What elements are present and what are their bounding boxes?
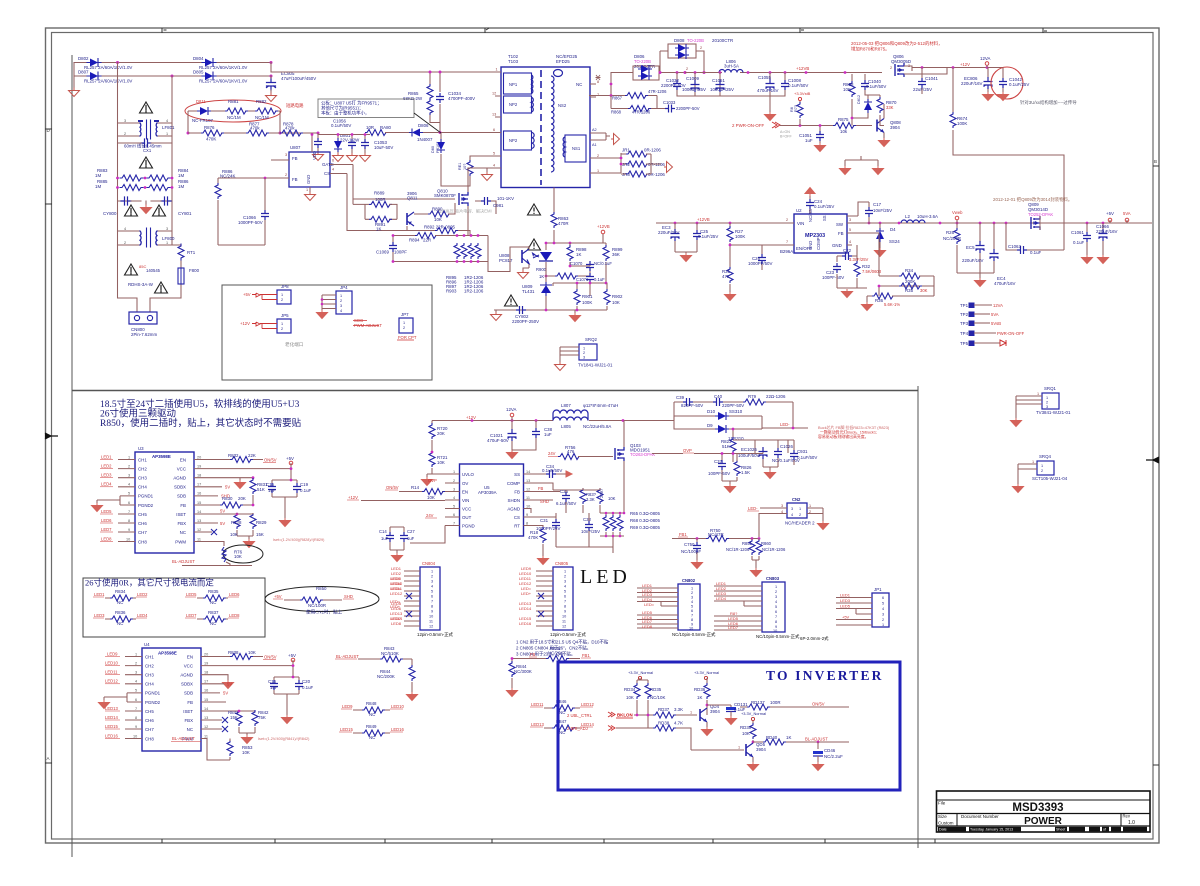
svg-text:220uF/25V: 220uF/25V: [658, 230, 680, 235]
svg-text:CH4: CH4: [138, 485, 147, 490]
svg-text:F800: F800: [189, 268, 200, 273]
svg-text:FB: FB: [180, 503, 186, 508]
junctions rail: [676, 71, 679, 74]
svg-text:2: 2: [281, 298, 283, 302]
svg-text:R14: R14: [411, 485, 420, 490]
svg-text:R894: R894: [409, 238, 420, 243]
svg-text:BL-ADJUST: BL-ADJUST: [172, 736, 195, 741]
resistor R674: [952, 68, 954, 113]
wire sense to opto loop: [488, 262, 510, 272]
svg-text:51K: 51K: [257, 487, 265, 492]
resistor R890: [428, 211, 451, 217]
svg-text:VDD: VDD: [312, 151, 317, 160]
svg-text:of: of: [1103, 828, 1106, 832]
svg-text:R868: R868: [611, 110, 622, 115]
capacitor C1066b: [218, 178, 265, 245]
svg-text:LED6: LED6: [391, 606, 402, 611]
svg-text:R79: R79: [748, 394, 757, 399]
svg-text:使用CN2时，贴上: 使用CN2时，贴上: [306, 609, 343, 616]
svg-text:2012-12-01 把Q809改为3014封装物料。: 2012-12-01 把Q809改为3014封装物料。: [993, 196, 1072, 203]
svg-text:6: 6: [882, 596, 884, 600]
svg-text:ISET: ISET: [176, 512, 186, 517]
svg-text:C1051: C1051: [712, 78, 725, 83]
svg-text:R69 0.3Ω-0805: R69 0.3Ω-0805: [630, 525, 660, 530]
svg-text:OVP: OVP: [683, 448, 692, 453]
svg-text:1: 1: [453, 470, 455, 474]
svg-text:10K: 10K: [608, 496, 616, 501]
svg-text:VCC: VCC: [177, 467, 186, 472]
connector CN800: [129, 312, 157, 324]
svg-text:12: 12: [526, 488, 530, 492]
svg-text:PWM: PWM: [175, 540, 186, 545]
resistor R902: [604, 289, 610, 305]
ground U807: [305, 192, 316, 201]
svg-text:1000uF/25V: 1000uF/25V: [710, 87, 734, 92]
svg-text:3: 3: [791, 507, 793, 511]
svg-text:33K: 33K: [886, 105, 894, 110]
svg-text:470uF/16V: 470uF/16V: [757, 88, 779, 93]
svg-text:SRQ2: SRQ2: [585, 337, 598, 342]
svg-text:5: 5: [691, 605, 693, 609]
svg-text:R890: R890: [432, 207, 443, 212]
snubber ellipse red: [185, 100, 281, 122]
svg-text:C750: C750: [684, 542, 695, 547]
resistor R867 secondary: [589, 84, 657, 109]
svg-text:LED11: LED11: [531, 702, 544, 707]
capacitor C1069: [393, 236, 415, 262]
svg-text:5: 5: [453, 505, 455, 509]
svg-text:1.5K: 1.5K: [741, 470, 750, 475]
svg-text:C1055: C1055: [758, 75, 771, 80]
svg-text:10K: 10K: [437, 460, 445, 465]
svg-text:D807: D807: [78, 70, 89, 75]
svg-text:+5V: +5V: [274, 594, 282, 599]
jumper JR2: [626, 161, 649, 167]
svg-text:100R: 100R: [770, 700, 781, 705]
svg-text:R850: R850: [316, 586, 327, 591]
svg-text:5VA: 5VA: [1123, 211, 1131, 216]
zone tick top 4: [1043, 28, 1047, 33]
svg-text:36K: 36K: [612, 252, 620, 257]
svg-text:LED14: LED14: [105, 715, 118, 720]
wire VCC to +5V: [194, 463, 291, 480]
wire AC rail top: [74, 62, 271, 64]
svg-text:4700PF-400V: 4700PF-400V: [448, 96, 475, 101]
svg-text:SRQ1: SRQ1: [1044, 386, 1057, 391]
svg-text:1K: 1K: [539, 274, 544, 279]
svg-text:100K: 100K: [735, 234, 745, 239]
svg-text:22R: 22R: [423, 238, 431, 243]
svg-text:Iset=(1.2V/400)(R828)//(R829): Iset=(1.2V/400)(R828)//(R829): [273, 538, 325, 542]
svg-text:LED1: LED1: [94, 592, 105, 597]
capacitor CY801: [161, 197, 171, 205]
svg-text:10: 10: [429, 615, 433, 619]
NC X mark: [194, 531, 212, 533]
svg-text:2: 2: [564, 575, 566, 579]
svg-text:1: 1: [882, 623, 884, 627]
FBX stub: [194, 522, 218, 524]
svg-text:16: 16: [197, 492, 201, 496]
diode D804: [202, 59, 216, 67]
resistor R31: [727, 267, 733, 283]
svg-text:NP2: NP2: [509, 102, 518, 107]
svg-text:AGND: AGND: [180, 673, 193, 678]
capacitor C1070: [570, 263, 590, 266]
svg-text:12VA: 12VA: [993, 303, 1003, 308]
svg-text:+5V: +5V: [288, 653, 296, 658]
wire EMI left vertical: [117, 63, 119, 246]
svg-text:5V: 5V: [220, 521, 225, 526]
svg-text:LED-: LED-: [780, 422, 790, 427]
svg-text:R851: R851: [742, 541, 753, 546]
svg-text:68KΩ-2W: 68KΩ-2W: [403, 96, 423, 101]
svg-text:SHD: SHD: [540, 499, 549, 504]
title block outer: [937, 791, 1151, 832]
resistor R721: [429, 451, 435, 467]
jumper JR1: [626, 151, 649, 157]
svg-text:BL-ADJUST: BL-ADJUST: [336, 654, 359, 659]
svg-text:T103: T103: [508, 59, 519, 64]
svg-text:15: 15: [197, 501, 201, 505]
svg-text:Vweb: Vweb: [952, 210, 963, 215]
resistor R876: [201, 130, 224, 136]
svg-text:6: 6: [775, 610, 777, 614]
wire pins GND secondary: [598, 133, 610, 140]
caps C15 C19: [272, 480, 297, 518]
capacitor C25: [693, 230, 701, 240]
svg-text:1: 1: [1037, 392, 1039, 396]
zone letter mark left C: [45, 203, 52, 205]
svg-text:CH7: CH7: [145, 727, 154, 732]
svg-text:容易驱动板则刚输出高亮度。: 容易驱动板则刚输出高亮度。: [818, 434, 869, 439]
svg-text:C1061: C1061: [1071, 230, 1084, 235]
svg-text:11: 11: [429, 620, 433, 624]
capacitor C24: [809, 196, 811, 214]
svg-text:TO-220B: TO-220B: [687, 38, 704, 43]
PWM to R76 pot ellipse: [194, 542, 224, 547]
svg-text:D9: D9: [707, 423, 713, 428]
resistor R882: [255, 108, 278, 114]
svg-text:10K: 10K: [843, 87, 851, 92]
svg-text:1N4007: 1N4007: [417, 137, 433, 142]
svg-text:TO263-DPAK: TO263-DPAK: [630, 452, 655, 457]
warning triangle fuse: [155, 282, 168, 293]
node at C1056: [317, 132, 320, 135]
svg-text:LED16: LED16: [105, 734, 118, 739]
NC X mark: [201, 728, 222, 730]
zone ticks bottom: [162, 839, 935, 843]
svg-text:10K: 10K: [230, 532, 238, 537]
ground C14 C27: [392, 553, 403, 562]
svg-text:NC/300K: NC/300K: [514, 669, 532, 674]
svg-text:C1071: C1071: [576, 277, 589, 282]
junction QD4 collector: [706, 704, 709, 707]
resistor R891: [369, 216, 392, 222]
wire snubber row: [188, 110, 280, 112]
svg-text:NS1: NS1: [572, 146, 581, 151]
svg-text:TO INVERTER: TO INVERTER: [766, 668, 884, 683]
svg-text:5: 5: [564, 590, 566, 594]
svg-text:R903: R903: [446, 289, 457, 294]
svg-text:RD36: RD36: [694, 687, 706, 692]
svg-text:12VA: 12VA: [980, 56, 990, 61]
svg-text:FOR CPT: FOR CPT: [398, 335, 417, 340]
svg-text:LED7: LED7: [101, 527, 112, 532]
svg-text:CY800: CY800: [103, 211, 117, 216]
svg-text:2Pin-7.62mm: 2Pin-7.62mm: [131, 332, 157, 337]
svg-text:C1026: C1026: [780, 444, 793, 449]
wire secondary rail: [685, 72, 880, 74]
svg-text:5V: 5V: [227, 682, 232, 687]
junction dots bridge: [116, 61, 119, 64]
svg-text:12pin-0.5mm-正式: 12pin-0.5mm-正式: [417, 631, 453, 637]
svg-text:0.1uF/50V: 0.1uF/50V: [331, 123, 351, 128]
svg-text:470k: 470k: [250, 126, 260, 131]
svg-text:PGND2: PGND2: [145, 700, 161, 705]
resistors R851 R860: [749, 539, 755, 555]
svg-text:ON/5V: ON/5V: [264, 458, 277, 463]
svg-text:3: 3: [124, 119, 126, 123]
svg-text:2: 2: [281, 327, 283, 331]
cap C37: [721, 454, 723, 482]
cap CD46: [817, 742, 819, 749]
svg-text:NC/47R: NC/47R: [708, 532, 724, 537]
svg-text:2: 2: [691, 591, 693, 595]
svg-text:LED3: LED3: [840, 598, 851, 603]
svg-text:10: 10: [133, 735, 137, 739]
capacitor C1061: [1086, 223, 1088, 252]
svg-text:TP5: TP5: [960, 341, 969, 346]
wire EMI right vertical: [171, 76, 173, 245]
svg-text:A2: A2: [592, 128, 597, 132]
svg-text:7: 7: [564, 600, 566, 604]
wire BL-ADJUST row: [753, 741, 849, 743]
resistor R32: [856, 256, 858, 262]
svg-text:FBX: FBX: [177, 521, 186, 526]
svg-text:LED4: LED4: [101, 482, 112, 487]
SS row C34: [524, 473, 567, 475]
wire RE1 top to T102 pin5: [470, 156, 495, 160]
svg-text:LED10: LED10: [391, 704, 404, 709]
svg-text:1: 1: [340, 294, 342, 298]
svg-text:CN805: CN805: [555, 561, 569, 566]
resistor R870: [877, 97, 883, 113]
svg-text:13: 13: [197, 519, 201, 523]
AGND row: [524, 509, 532, 514]
svg-text:LED9: LED9: [107, 652, 118, 657]
svg-text:CH1: CH1: [138, 458, 147, 463]
svg-text:FB: FB: [187, 700, 193, 705]
svg-text:11: 11: [204, 735, 208, 739]
svg-text:VIN: VIN: [462, 498, 469, 503]
inductor L2: [901, 220, 925, 223]
svg-text:10K: 10K: [248, 650, 256, 655]
R850 option ellipse: [265, 587, 379, 612]
svg-text:2: 2: [124, 241, 126, 245]
svg-text:NC/1R-1206: NC/1R-1206: [726, 547, 750, 552]
svg-text:NC/22uH/5.8A: NC/22uH/5.8A: [583, 424, 611, 429]
svg-text:18.5寸至24寸二插使用U5，软排线的使用U5+U3: 18.5寸至24寸二插使用U5，软排线的使用U5+U3: [100, 398, 300, 410]
svg-text:+3.3VstB: +3.3VstB: [794, 91, 811, 96]
svg-text:C1070: C1070: [570, 261, 583, 266]
svg-text:3uH-5A: 3uH-5A: [724, 64, 739, 69]
FB stub: [201, 701, 226, 703]
resistor R830 FB: [194, 504, 253, 506]
svg-text:GND: GND: [832, 243, 842, 248]
svg-text:CN802: CN802: [682, 578, 696, 583]
warning triangle mid2: [528, 239, 541, 250]
svg-text:VCC: VCC: [184, 664, 193, 669]
svg-text:+12V: +12V: [960, 62, 970, 67]
svg-text:1: 1: [431, 570, 433, 574]
svg-text:24V: 24V: [548, 451, 556, 456]
svg-text:2 BRI_ADJ: 2 BRI_ADJ: [567, 726, 588, 731]
transformer T102 box: [501, 67, 590, 188]
svg-text:JP7: JP7: [401, 312, 409, 317]
svg-text:7: 7: [775, 615, 777, 619]
svg-text:10K: 10K: [427, 495, 435, 500]
svg-text:CD46: CD46: [824, 748, 836, 753]
diode D811: [197, 107, 211, 115]
svg-text:SS: SS: [822, 215, 827, 221]
caps C36 cluster: [562, 492, 570, 502]
svg-text:FB: FB: [292, 177, 298, 182]
svg-text:3 CN804 用于23.6，Q4不贴。: 3 CN804 用于23.6，Q4不贴。: [516, 651, 575, 658]
CS row C31 C32: [524, 513, 557, 519]
wire mid row: [318, 134, 370, 136]
svg-text:NC/2.2uF: NC/2.2uF: [824, 754, 843, 759]
ground opto: [523, 268, 529, 270]
bottom rail fb: [494, 309, 607, 311]
choke LF800: [118, 227, 176, 247]
svg-text:220uF/16V: 220uF/16V: [962, 258, 984, 263]
capacitor C1021: [511, 421, 513, 451]
net labels LED9-16: [105, 652, 118, 739]
svg-text:9: 9: [526, 513, 528, 517]
svg-text:LED14: LED14: [519, 606, 532, 611]
svg-text:8: 8: [691, 618, 693, 622]
ground C1056: [313, 152, 324, 161]
svg-text:3: 3: [285, 153, 287, 157]
wires resistor rows: [120, 178, 167, 188]
resistor RD34: [637, 678, 648, 684]
svg-text:10: 10: [562, 615, 566, 619]
svg-text:OV: OV: [462, 481, 468, 486]
resistor RD38: [653, 725, 676, 731]
svg-text:470K: 470K: [528, 535, 538, 540]
T102 pin stubs left: [495, 72, 501, 168]
svg-text:47R/1206: 47R/1206: [632, 110, 651, 115]
aging port box: [222, 285, 432, 380]
svg-text:100PF-50V: 100PF-50V: [822, 275, 844, 280]
thermistor RT1: [172, 245, 181, 246]
svg-text:LED+: LED+: [521, 591, 532, 596]
wire AC rail bottom: [74, 75, 271, 77]
capacitor CY800: [121, 197, 131, 205]
svg-text:RE1: RE1: [458, 163, 462, 170]
capacitor C17: [847, 202, 869, 223]
wire +12VB rail to VIN: [656, 222, 783, 224]
svg-text:4: 4: [340, 309, 342, 313]
SDB stub: [194, 495, 218, 497]
svg-text:R828: R828: [231, 520, 242, 525]
red label column right: [390, 576, 403, 621]
svg-text:RD38: RD38: [658, 721, 670, 726]
svg-text:10: 10: [126, 538, 130, 542]
svg-text:100K: 100K: [957, 121, 967, 126]
diode D806 1N4007: [409, 129, 423, 137]
capacitor C14: [390, 527, 404, 553]
svg-text:LED6: LED6: [229, 592, 240, 597]
svg-text:22Ω-1206: 22Ω-1206: [766, 394, 786, 399]
svg-text:FB: FB: [514, 490, 520, 495]
svg-text:2: 2: [285, 173, 287, 177]
svg-text:NC: NC: [210, 621, 216, 626]
svg-text:+12V: +12V: [466, 415, 476, 420]
svg-text:1: 1: [306, 188, 308, 192]
secondary winding NS1: [565, 135, 586, 162]
resistor R858: [849, 81, 855, 97]
svg-text:ON/5V: ON/5V: [264, 655, 277, 660]
svg-text:3: 3: [691, 596, 693, 600]
svg-text:NC: NC: [187, 727, 193, 732]
svg-text:CH5: CH5: [145, 709, 154, 714]
svg-text:R867: R867: [612, 96, 623, 101]
resistor R889: [369, 201, 392, 207]
26inch option box: [83, 578, 265, 637]
svg-text:RT: RT: [514, 524, 520, 529]
ground R721: [427, 474, 432, 477]
svg-text:VIN: VIN: [797, 221, 804, 226]
resistor R831: [252, 478, 254, 479]
svg-text:3: 3: [453, 488, 455, 492]
svg-text:D805: D805: [193, 70, 204, 75]
svg-text:LED3: LED3: [94, 613, 105, 618]
svg-text:NC/SS: NC/SS: [808, 209, 813, 222]
svg-text:4: 4: [431, 585, 433, 589]
svg-text:R837: R837: [208, 610, 219, 615]
capacitor C1056: [314, 138, 322, 148]
svg-text:C14: C14: [379, 529, 387, 534]
wire LF800 down-left to CN800: [118, 245, 138, 312]
svg-text:Iset=(1.2V/400)(R841)//(R842): Iset=(1.2V/400)(R841)//(R842): [258, 737, 310, 741]
svg-text:16: 16: [204, 689, 208, 693]
svg-text:75K: 75K: [258, 715, 266, 720]
svg-text:2: 2: [340, 299, 342, 303]
capacitor C1008: [770, 73, 785, 97]
wire SW rail: [868, 222, 1152, 224]
svg-text:10: 10: [773, 629, 777, 633]
svg-text:12VA: 12VA: [506, 407, 516, 412]
svg-text:SDB: SDB: [184, 691, 193, 696]
svg-text:R850，使用二插时，贴上，其它状态时不需要贴: R850，使用二插时，贴上，其它状态时不需要贴: [100, 417, 302, 429]
svg-text:5: 5: [431, 590, 433, 594]
transformer core dashed: [540, 70, 542, 185]
svg-text:2: 2: [1046, 401, 1048, 405]
red label column CN804: [391, 566, 402, 626]
svg-text:LED11: LED11: [105, 670, 118, 675]
svg-text:3: 3: [781, 504, 783, 508]
svg-text:R849: R849: [366, 724, 377, 729]
svg-text:NC/1M: NC/1M: [255, 115, 269, 120]
svg-text:20100CTR: 20100CTR: [712, 38, 733, 43]
svg-text:R832: R832: [228, 453, 239, 458]
svg-text:NC: NC: [559, 730, 565, 735]
caps EC1026 C1026: [733, 440, 788, 470]
svg-text:200K: 200K: [905, 279, 915, 284]
svg-text:TP3: TP3: [960, 321, 969, 326]
svg-text:LED8: LED8: [391, 621, 402, 626]
